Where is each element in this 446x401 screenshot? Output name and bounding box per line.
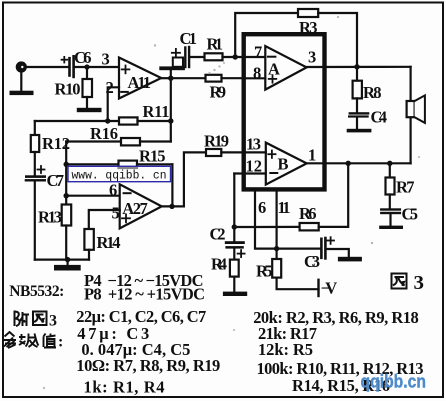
resistor R13: [62, 205, 71, 226]
svg-text:C4: C4: [371, 108, 388, 127]
glyphs 图3 (corner box): [392, 272, 425, 294]
capacitor C4: [349, 112, 370, 114]
capacitor C6: [68, 58, 71, 75]
resistor R1: [205, 53, 223, 60]
glyphs 附图3: [15, 311, 58, 330]
svg-text:13: 13: [246, 135, 261, 154]
wire pin7 to A: [243, 56, 265, 58]
terminal -V: [317, 280, 319, 296]
capacitor C7: [25, 175, 46, 178]
wire A11 pin2: [108, 87, 119, 121]
op-amp A11: [119, 58, 161, 99]
svg-text:R9: R9: [210, 83, 227, 102]
node Y vertical (R16/R15/pin6/R13): [65, 142, 67, 205]
wire C3 to ground: [327, 249, 349, 257]
svg-text:−V: −V: [321, 279, 338, 298]
resistor R19: [184, 152, 206, 206]
wire pin8 to A: [243, 77, 265, 79]
wire A27 pin5 / resistor R14: [89, 210, 120, 229]
node pin1/R7: [387, 161, 392, 166]
svg-text:P8 +12 ~ +15VDC: P8 +12 ~ +15VDC: [84, 285, 205, 304]
node pin1/R6: [346, 161, 351, 166]
svg-text:C5: C5: [402, 205, 419, 224]
capacitor C3 (electrolytic): [320, 239, 323, 258]
svg-text:A27: A27: [122, 199, 148, 218]
svg-text:R10: R10: [55, 80, 81, 99]
resistor R15: [66, 163, 118, 165]
node R11 right: [168, 118, 173, 123]
svg-text:R16: R16: [90, 124, 118, 143]
wire A11 output: [161, 77, 171, 79]
svg-text:5: 5: [112, 204, 120, 223]
wire A27 output: [162, 205, 184, 207]
svg-text:R7: R7: [396, 178, 415, 197]
svg-text:8: 8: [253, 64, 261, 83]
svg-text:R1: R1: [207, 35, 224, 54]
resistor R9: [206, 75, 222, 82]
ground (R4): [223, 292, 247, 296]
watermark www.qqibb.cn: [68, 166, 171, 182]
resistor R7: [389, 163, 391, 177]
svg-text::: :: [58, 334, 63, 351]
svg-text:R14: R14: [97, 233, 121, 252]
resistor R3: [298, 9, 318, 17]
ground (input): [20, 71, 22, 91]
svg-text:R5: R5: [256, 262, 273, 281]
scan speckles: [43, 16, 420, 389]
glyphs 参数值:: [4, 332, 64, 351]
svg-text:1: 1: [308, 146, 316, 165]
capacitor C5: [380, 208, 401, 210]
svg-text:3: 3: [308, 48, 316, 67]
resistor R4: [233, 249, 235, 260]
wire R3 feedback loop: [235, 13, 298, 57]
resistor R10: [86, 67, 88, 79]
resistor R12: [34, 121, 36, 135]
svg-text:C6: C6: [74, 48, 92, 67]
capacitor C1 (electrolytic): [170, 70, 172, 78]
svg-text:12k: R5: 12k: R5: [258, 340, 313, 359]
svg-text:R15: R15: [139, 147, 166, 166]
op-amp B (in IC): [266, 143, 307, 185]
svg-text:qqibb.cn: qqibb.cn: [361, 372, 427, 392]
svg-text:R3: R3: [299, 18, 318, 37]
node pin2/R11: [105, 118, 110, 123]
wire C6 to A11 pin3: [74, 66, 119, 68]
svg-text:3: 3: [49, 313, 57, 330]
svg-text:C7: C7: [47, 171, 65, 190]
svg-text:6: 6: [109, 181, 117, 200]
svg-text:2: 2: [106, 78, 114, 97]
node pin11/R5: [274, 246, 279, 251]
svg-text:R12: R12: [42, 134, 70, 153]
svg-text:R19: R19: [204, 132, 229, 151]
wire pin11 stub / resistor R5: [276, 192, 278, 259]
svg-text:A11: A11: [128, 73, 152, 92]
node pin7/R3: [233, 54, 238, 59]
svg-text:10Ω: R7, R8, R9, R19: 10Ω: R7, R8, R9, R19: [76, 356, 220, 375]
resistor R6: [234, 226, 299, 228]
svg-text:A: A: [268, 60, 280, 79]
wire pin6 stub: [255, 192, 320, 249]
svg-text:C3: C3: [304, 252, 320, 271]
ground rail bottom-left: [35, 259, 89, 261]
wire A27 pin6: [66, 195, 120, 197]
svg-text:www. qqibb. cn: www. qqibb. cn: [72, 168, 167, 182]
svg-text:11: 11: [278, 198, 291, 217]
svg-text:C1: C1: [180, 29, 198, 48]
resistor R11: [35, 120, 119, 122]
svg-text:3: 3: [102, 50, 110, 69]
op-amp A27: [120, 184, 162, 228]
svg-text:R8: R8: [363, 83, 382, 102]
input jack J: [16, 61, 27, 72]
wire A output (pin3) to speaker: [307, 66, 411, 68]
ground (C4): [347, 129, 372, 133]
wire B output (pin1): [307, 162, 411, 164]
node pin12/R6/C2: [232, 224, 237, 229]
ground (C5): [379, 226, 403, 229]
wire A11 output vertical: [170, 78, 172, 141]
svg-text:NB5532:: NB5532:: [9, 283, 64, 300]
ground (R10): [77, 108, 102, 112]
svg-text:C2: C2: [210, 225, 226, 244]
capacitor C2 (electrolytic): [225, 241, 245, 244]
svg-text:R13: R13: [38, 208, 62, 227]
svg-text:7: 7: [254, 43, 262, 62]
resistor R8: [356, 67, 358, 81]
op-amp A (in IC): [265, 46, 306, 90]
wire pin13 to B: [243, 151, 266, 153]
wire pin12 to B: [234, 172, 265, 174]
node: C6/R10/pin3 junction: [84, 64, 89, 69]
wire C1 to R1: [189, 56, 204, 58]
wire R5 to -V: [277, 278, 319, 290]
wire R9: [171, 77, 206, 79]
svg-text:R6: R6: [299, 204, 317, 223]
svg-text:1k: R1, R4: 1k: R1, R4: [84, 378, 165, 397]
svg-text:R4: R4: [211, 255, 227, 274]
ground (C3): [338, 257, 362, 262]
svg-text:12: 12: [246, 157, 263, 176]
node A11 output: [168, 76, 173, 81]
IC box NB5532: [244, 34, 325, 189]
svg-text:6: 6: [258, 198, 266, 217]
wire input to C6: [27, 66, 69, 68]
node pin3/R3/R8: [354, 64, 359, 69]
speaker BL: [410, 67, 412, 164]
resistor R16: [66, 140, 121, 142]
svg-text:3: 3: [414, 272, 425, 294]
svg-text:R11: R11: [143, 102, 170, 121]
wire pin12 branch down: [233, 174, 235, 228]
svg-text:B: B: [278, 155, 289, 174]
